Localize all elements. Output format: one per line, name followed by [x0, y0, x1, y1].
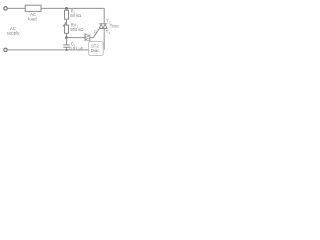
wire: bottom rail [7, 49, 88, 51]
node: junction RV1 / C1 / diac [65, 36, 68, 39]
node: junction top rail / R1 [65, 7, 68, 10]
wire: RV1 to junction [66, 33, 68, 37]
wire: triac T1 to bottom [103, 29, 105, 50]
svg-text:load: load [28, 16, 37, 21]
wire: junction to C1 [66, 38, 68, 45]
potentiometer RV1 [65, 25, 69, 33]
wire: junction to R1 [66, 8, 68, 10]
capacitor C1 [63, 44, 69, 46]
svg-text:500 kΩ: 500 kΩ [70, 27, 83, 32]
wire: diac to gate diagonal [90, 29, 99, 38]
wire: junction to diac [67, 37, 85, 39]
node: C1 bottom rail junction [65, 49, 67, 51]
svg-text:50 kΩ: 50 kΩ [70, 13, 81, 18]
svg-text:Triac: Triac [110, 24, 119, 29]
wire: top terminal to AC load box [7, 7, 25, 9]
svg-text:T1: T1 [106, 29, 111, 35]
wire: C1 to bottom rail [66, 47, 68, 50]
resistor R1 [65, 10, 69, 19]
diac D1 [85, 34, 90, 42]
svg-text:supply: supply [7, 30, 20, 35]
svg-text:Diac: Diac [91, 48, 101, 53]
load LD1: AC load box [25, 5, 41, 11]
terminal: AC supply bottom [4, 48, 7, 51]
wiper arrow of RV1 [63, 23, 66, 27]
triac T1 symbol [99, 24, 107, 29]
wire: AC load box to triac T2 corner [41, 8, 104, 24]
wire: R1 to RV1 [66, 19, 68, 25]
callout box: ST2 Diac [89, 41, 104, 55]
terminal: AC supply top [4, 7, 7, 10]
svg-text:G: G [94, 29, 97, 34]
